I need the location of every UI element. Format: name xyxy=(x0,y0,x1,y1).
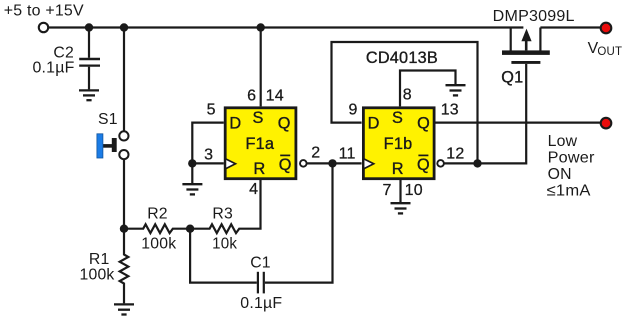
pin 9 label xyxy=(348,101,357,118)
svg-text:14: 14 xyxy=(266,88,284,105)
R2 label xyxy=(141,206,176,253)
svg-text:CD4013B: CD4013B xyxy=(366,49,438,67)
wire F1a clock input xyxy=(192,162,224,164)
ground F1a inputs xyxy=(182,184,202,194)
resistor R3 xyxy=(190,180,260,233)
wire F1a D input xyxy=(192,123,224,164)
node junction rail-pin6/14 xyxy=(257,23,265,31)
svg-text:11: 11 xyxy=(339,145,356,162)
svg-text:OUT: OUT xyxy=(597,46,622,58)
ground R1 xyxy=(114,304,134,314)
wire rail to F1a S/VDD pins xyxy=(260,28,262,107)
node junction rail-S1 xyxy=(120,23,128,31)
pin 14 label xyxy=(266,88,284,105)
pin 4 label xyxy=(249,181,258,198)
svg-text:10k: 10k xyxy=(212,236,237,253)
S1 label xyxy=(98,111,118,128)
pin 5 label xyxy=(207,102,216,119)
wire F1b R pins 7/10 to ground xyxy=(399,180,401,202)
svg-text:C1: C1 xyxy=(250,255,271,272)
svg-text:10: 10 xyxy=(405,182,423,199)
svg-text:8: 8 xyxy=(403,86,412,103)
svg-text:9: 9 xyxy=(348,101,357,118)
wire F1b Qbar to Q1 gate xyxy=(444,64,526,163)
svg-text:Q1: Q1 xyxy=(501,69,523,87)
svg-text:ON: ON xyxy=(548,166,572,183)
svg-text:12: 12 xyxy=(446,145,464,162)
svg-text:F1b: F1b xyxy=(384,135,413,153)
svg-text:0.1µF: 0.1µF xyxy=(33,59,75,76)
svg-text:DMP3099L: DMP3099L xyxy=(493,8,575,25)
node +5 to +15V label xyxy=(4,2,84,19)
node junction D-CLK F1a xyxy=(188,159,196,167)
svg-text:0.1µF: 0.1µF xyxy=(240,295,282,312)
svg-text:S1: S1 xyxy=(98,111,118,128)
pin 11 label xyxy=(339,145,356,162)
svg-text:7: 7 xyxy=(382,182,391,199)
C1 label xyxy=(240,255,282,312)
svg-text:R: R xyxy=(254,160,266,178)
svg-text:2: 2 xyxy=(311,145,320,162)
wire F1b Q pin13 to output terminal xyxy=(434,121,600,123)
C2 value label xyxy=(33,45,75,77)
wire F1a Qbar to F1b clock xyxy=(307,162,362,164)
svg-text:S: S xyxy=(392,109,403,127)
svg-text:Q: Q xyxy=(417,156,430,174)
ground F1b S xyxy=(446,85,466,95)
node junction Qbar-C1-clk xyxy=(328,159,336,167)
wire to ground F1a xyxy=(191,163,193,183)
svg-text:Q: Q xyxy=(417,115,430,133)
Vout label xyxy=(588,40,623,58)
supply terminal xyxy=(39,23,48,32)
pin 8 label xyxy=(403,86,412,103)
svg-text:+5 to +15V: +5 to +15V xyxy=(4,2,84,19)
svg-text:Q: Q xyxy=(278,115,291,133)
svg-text:F1a: F1a xyxy=(245,135,274,153)
svg-text:S: S xyxy=(252,109,263,127)
pin 6 label xyxy=(247,88,256,105)
svg-text:100k: 100k xyxy=(141,236,176,253)
svg-text:3: 3 xyxy=(204,147,213,164)
svg-text:4: 4 xyxy=(249,181,258,198)
node junction R2-R3-C1 xyxy=(186,225,194,233)
wire rail from Q1 drain to Vout xyxy=(540,26,600,28)
Vout terminal xyxy=(601,23,612,34)
svg-text:R: R xyxy=(392,160,404,178)
svg-text:R1: R1 xyxy=(89,251,110,268)
svg-text:≤1mA: ≤1mA xyxy=(547,183,591,200)
svg-text:5: 5 xyxy=(207,102,216,119)
pin 2 label xyxy=(311,145,320,162)
svg-text:13: 13 xyxy=(441,102,459,119)
F1b Qbar bubble xyxy=(437,160,444,167)
wire rail to S1 xyxy=(123,28,125,132)
Low Power terminal xyxy=(601,118,612,129)
node junction S1-R1-R2 xyxy=(120,225,128,233)
transistor Q1 DMP3099L xyxy=(502,28,550,63)
pin 10 label xyxy=(405,182,423,199)
capacitor C2 xyxy=(79,28,100,90)
svg-text:Q: Q xyxy=(279,156,292,174)
pin 12 label xyxy=(446,145,464,162)
resistor R2 xyxy=(124,224,190,233)
capacitor C1 xyxy=(190,163,332,293)
wire F1b S pin8 to ground xyxy=(400,71,456,107)
node junction Qbar-loop xyxy=(473,159,481,167)
CD4013B label xyxy=(366,49,438,67)
pin 13 label xyxy=(441,102,459,119)
pin 7 label xyxy=(382,182,391,199)
Q1 label xyxy=(501,69,523,87)
R3 label xyxy=(212,206,237,253)
pin 3 label xyxy=(204,147,213,164)
svg-text:R2: R2 xyxy=(147,206,168,223)
resistor R1 xyxy=(120,229,129,304)
switch S1 xyxy=(97,131,129,159)
DMP3099L label xyxy=(493,8,575,25)
ground C2 xyxy=(79,90,99,100)
R1 label xyxy=(80,251,115,284)
flip-flop F1b xyxy=(363,108,434,179)
F1a Qbar bubble xyxy=(300,160,307,167)
svg-text:D: D xyxy=(229,114,241,132)
svg-text:Power: Power xyxy=(548,150,595,167)
wire top rail xyxy=(48,26,523,28)
svg-text:6: 6 xyxy=(247,88,256,105)
svg-text:Low: Low xyxy=(548,133,578,150)
flip-flop F1a xyxy=(225,108,296,179)
svg-text:D: D xyxy=(368,114,380,132)
node junction rail-C2 xyxy=(85,23,93,31)
wire feedback loop Q12 to D9 xyxy=(332,42,478,163)
Low Power ON label xyxy=(547,133,595,200)
svg-text:R3: R3 xyxy=(212,206,233,223)
wire S1 to node A xyxy=(123,159,125,228)
ground F1b R xyxy=(391,203,411,213)
svg-text:100k: 100k xyxy=(80,267,115,284)
